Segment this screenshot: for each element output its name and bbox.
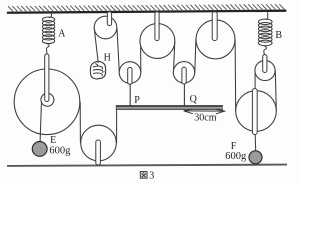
svg-text:600g: 600g <box>49 145 71 156</box>
svg-text:Q: Q <box>190 94 198 105</box>
svg-text:3: 3 <box>149 170 154 181</box>
svg-text:A: A <box>58 29 66 40</box>
svg-text:600g: 600g <box>225 151 247 162</box>
svg-text:H: H <box>104 52 111 63</box>
svg-text:30cm: 30cm <box>194 113 216 124</box>
svg-text:B: B <box>275 30 282 41</box>
svg-text:F: F <box>231 141 237 152</box>
svg-text:P: P <box>134 95 140 106</box>
